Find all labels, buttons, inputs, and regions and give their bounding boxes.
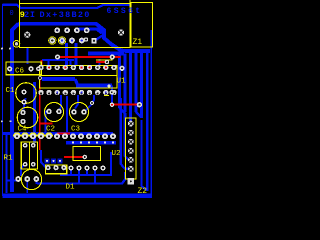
wire red stub lower left (57, 133, 70, 135)
svg-text:R1: R1 (4, 155, 14, 163)
wire stub to U1 pad 9 (99, 59, 101, 66)
wire right bus vertical 5 (140, 51, 143, 118)
connector Z2 outline (126, 118, 136, 179)
wire Z2 left vertical 1 (121, 98, 128, 169)
wire U1 internal horizontal lower (76, 84, 112, 88)
wire vertical to D1 left pad (41, 150, 48, 168)
svg-text:Dx+38B20: Dx+38B20 (40, 10, 91, 20)
wire right lower vertical 2 (142, 120, 147, 190)
wire vertical trace from connector pin to U1 area (left) (65, 43, 68, 66)
connector X1 pin row upper (54, 27, 89, 33)
capacitor C2 outline circle (45, 103, 64, 122)
svg-text:U1: U1 (117, 78, 127, 86)
svg-text:C2: C2 (46, 126, 55, 134)
wire drop from U1 pad to via (93, 95, 95, 102)
wire lower mid horizontal trace (60, 152, 111, 175)
resistor R1 pads (23, 143, 36, 167)
wire bottom border trace (3, 193, 153, 198)
wire red trace across middle (58, 56, 121, 58)
wire stub above U1 pin row (42, 59, 74, 61)
capacitor C6 pads (7, 66, 41, 71)
wire U1 internal vertical link (75, 79, 78, 86)
capacitor C6 outline (6, 62, 41, 75)
IC U2 outline (73, 147, 100, 161)
via near C3 right (90, 101, 94, 105)
svg-text:2I: 2I (24, 10, 36, 20)
pad row above R1 and U2 (14, 133, 116, 139)
svg-text:D1: D1 (66, 184, 76, 192)
capacitor C1 outline circle (16, 83, 37, 104)
wire Z2 left vertical 2 (125, 98, 129, 160)
wire U2 pad drop 2 (78, 170, 80, 183)
wire vertical between C2 and C3 (66, 96, 68, 134)
wire red stub above U1 pad 1 (41, 60, 43, 65)
connector Z2 pin 1 square pad (128, 178, 134, 184)
wire second horizontal into elbow (77, 29, 102, 33)
wire right bus elbow 4 (136, 112, 141, 117)
IC U2 pin row lower (68, 165, 105, 170)
svg-text:0: 0 (10, 10, 14, 18)
via bottom left 2 (9, 48, 11, 50)
svg-text:U2: U2 (112, 150, 121, 158)
via right mid 2 (109, 90, 114, 95)
via inside U1 right (108, 85, 111, 88)
wire right lower vertical (146, 51, 148, 191)
connector X1 mounting hole right (118, 29, 124, 35)
wire red stub below bus (96, 61, 107, 63)
svg-text:C6: C6 (15, 68, 25, 76)
via near C6 (38, 76, 42, 80)
svg-text:C3: C3 (71, 126, 81, 134)
svg-text:Z1: Z1 (133, 38, 143, 47)
capacitor C4 pads (20, 110, 25, 124)
wire stub to U1 pad 5 (70, 59, 72, 66)
wire transistor stub down (26, 182, 28, 193)
capacitor C2 pads (46, 109, 62, 115)
wire U2 pad stub 3 (86, 170, 88, 175)
wire right bus vertical 4 (135, 51, 138, 112)
silk ring around X1 pad 6 (49, 37, 56, 44)
wire red trace to right pad (112, 104, 137, 106)
capacitor C4 outline circle (17, 107, 38, 128)
wire U2 pad stub 4 (94, 170, 96, 184)
silk ring around mount hole left-bottom (13, 41, 20, 48)
via right of red trace (110, 54, 115, 59)
wire red trace at U2 (64, 156, 85, 158)
wire stub transistor to bottom trace (35, 179, 37, 184)
wire vertical trace x37 down (33, 82, 36, 143)
wire C3 pad to via diagonal (84, 104, 92, 112)
resistor R1 body outline (21, 142, 29, 169)
wire left border trace (2, 4, 4, 196)
via next to X1 pin row (84, 37, 88, 41)
IC U1 outline (40, 66, 118, 89)
wire C2 left pad vertical (44, 112, 46, 134)
connector Z2 pin pads (128, 121, 134, 172)
diode D1 pads (45, 165, 66, 170)
svg-text:C1: C1 (6, 87, 16, 95)
silk arcs over pad row (14, 133, 53, 137)
via cluster blue squares left of U2 (45, 158, 63, 163)
board background (0, 0, 154, 200)
wire drop from U1 pad to C3 (75, 95, 78, 109)
via at red stub (105, 60, 110, 65)
silk line below bus (96, 59, 113, 61)
silk ring around X1 pad 7 (58, 37, 65, 44)
wire link C1 to C4 (23, 98, 26, 113)
capacitor C3 outline circle (70, 103, 89, 122)
wire right bus vertical 3 (129, 51, 132, 121)
via at U2 red trace (83, 155, 88, 160)
wire vertical trace C6 to connector (26, 48, 28, 64)
wire U1 internal horizontal upper (42, 77, 75, 81)
wire red branch to C2 (40, 123, 53, 125)
wire U2 pad drop 1 (70, 170, 72, 175)
wire horizontal trace above capacitor row (3, 132, 114, 135)
wire U1 right vertical drop (111, 86, 113, 105)
wire top border trace (3, 5, 131, 8)
via bottom left 1 (1, 48, 3, 50)
via right mid 1 (119, 66, 124, 71)
transistor T1 pads (15, 176, 39, 182)
capacitor C3 pads (71, 109, 87, 115)
wire thick mid-right horizontal bus (88, 51, 124, 55)
transistor T1 outline circle (21, 169, 41, 189)
wire connector top horizontal trace (16, 24, 150, 51)
connector X1 outline (20, 0, 130, 47)
resistor R2 body outline (29, 142, 37, 169)
wire red vertical trace left (39, 80, 41, 150)
wire right bus vertical 1 (118, 53, 121, 108)
wire lower long horizontal trace (37, 172, 125, 184)
via mid left 1 (1, 120, 3, 122)
via mid left 2 (10, 120, 12, 122)
via right mid 3 (110, 102, 115, 107)
wire vertical trace from connector pin to U1 area (right) (75, 43, 78, 66)
wire drop from U1 pad to C2 (60, 95, 62, 110)
IC U1 inner silk line (40, 75, 118, 77)
wire right border trace (150, 30, 152, 196)
via dots row B (72, 141, 114, 143)
silk tick near U1 bottom right (104, 95, 109, 97)
IC U1 pin row lower (38, 90, 116, 95)
wire right bus elbow 1 (120, 108, 126, 119)
svg-text:C4: C4 (18, 126, 28, 134)
svg-text:Z2: Z2 (138, 187, 148, 196)
via left of red trace (55, 55, 60, 60)
wire stub to U1 pad 2 (48, 60, 50, 67)
wire right bus vertical 2 (124, 53, 127, 112)
capacitor C1 pads (21, 89, 26, 104)
wire stub R1 bottom to left (21, 164, 25, 176)
wire bottom left vertical (6, 134, 8, 193)
connector X1 mounting hole left (24, 32, 30, 38)
wire thick left vertical trace (12, 24, 18, 192)
wire square pad diagonal to elbow (95, 34, 105, 41)
IC U1 pin row upper (38, 65, 116, 70)
diode D1 body outline (45, 165, 66, 174)
crystal Z1 outline (131, 3, 153, 47)
wire blue band under pad row (66, 141, 116, 145)
via at end of red trace right (137, 102, 142, 107)
connector X1 pin 1 square pad (91, 38, 96, 43)
wire bottom-left horizontal to transistor (7, 180, 18, 182)
svg-text:6SS6t: 6SS6t (107, 7, 143, 16)
connector X1 pin row lower (49, 38, 84, 44)
